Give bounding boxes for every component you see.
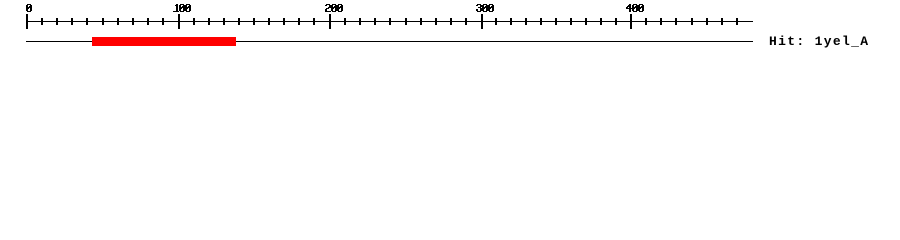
svg-text:Hit: 1yel_A: Hit: 1yel_A xyxy=(769,34,868,49)
